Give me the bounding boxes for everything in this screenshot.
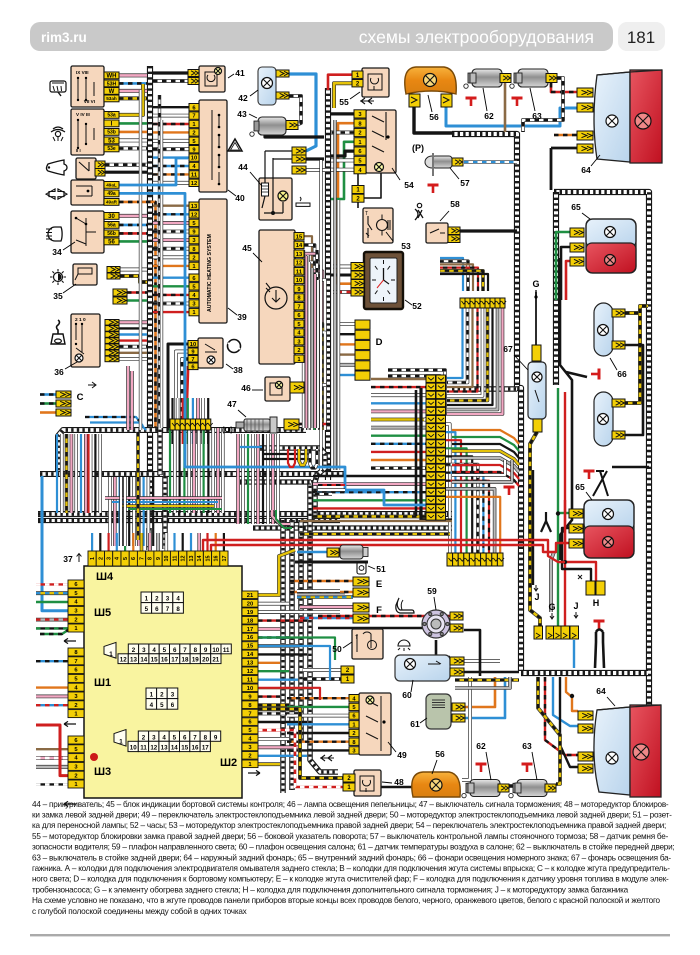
wires 56 top (414, 107, 452, 133)
svg-text:2 1 0: 2 1 0 (75, 317, 86, 323)
svg-text:13: 13 (189, 556, 195, 562)
window switch 54 (366, 110, 396, 173)
svg-text:WH: WH (107, 74, 117, 80)
svg-text:1: 1 (109, 651, 113, 658)
svg-text:7: 7 (192, 114, 195, 120)
svg-text:3: 3 (142, 647, 146, 654)
wires 46 47 (304, 383, 326, 387)
blue curve wires turn signals to 40 (119, 158, 188, 185)
wires D connector (340, 322, 355, 326)
wire 48 to 56b (381, 786, 413, 788)
svg-text:V IV III: V IV III (76, 112, 90, 117)
svg-text:E: E (376, 579, 382, 590)
svg-text:19: 19 (247, 610, 254, 616)
svg-text:12: 12 (247, 669, 253, 675)
svg-text:12: 12 (181, 556, 187, 562)
tags 66b (612, 399, 625, 407)
wire trunk right upper horizontal (452, 134, 521, 671)
wires light block to trunk (119, 214, 147, 218)
svg-text:18: 18 (247, 618, 254, 624)
svg-text:46: 46 (241, 383, 251, 393)
switch block 34 section washer (71, 109, 104, 155)
relay 41 (199, 66, 225, 92)
svg-text:8: 8 (204, 734, 208, 741)
svg-text:5: 5 (173, 734, 177, 741)
svg-text:6: 6 (183, 734, 187, 741)
svg-text:13: 13 (191, 204, 198, 210)
splice pair x114 (113, 289, 127, 296)
connector tags 30 56a 56b 56 (104, 213, 119, 220)
wires to 48 pins (258, 709, 343, 778)
svg-text:3: 3 (166, 596, 170, 603)
svg-text:15: 15 (151, 657, 158, 664)
svg-text:с голубой полоской соединены м: с голубой полоской соединены между собой… (32, 907, 247, 916)
svg-text:53: 53 (401, 241, 411, 251)
brake switch 47 (236, 417, 277, 433)
svg-text:21: 21 (212, 657, 219, 664)
motor 43 (250, 117, 286, 136)
svg-text:49: 49 (397, 750, 407, 760)
wires splice x114 (127, 291, 147, 294)
svg-text:48: 48 (394, 777, 404, 787)
wire trunk horizontal Hc2 (38, 518, 340, 523)
connector tags 65 top (570, 228, 584, 237)
wires central column left side (371, 378, 426, 380)
connector tags 65 bottom (569, 509, 583, 518)
wires 35 to trunk (120, 268, 147, 272)
svg-text:62: 62 (476, 741, 486, 751)
svg-text:5: 5 (160, 702, 164, 709)
door switch 63 bottom (522, 764, 533, 772)
black U wire (595, 632, 596, 668)
bottom rule (30, 934, 670, 936)
svg-text:6: 6 (155, 606, 159, 613)
svg-text:65: 65 (575, 482, 585, 492)
black verticals right mid (560, 258, 572, 560)
lamp 42 (258, 67, 276, 105)
header bar (30, 22, 613, 51)
wires central column left lower (313, 475, 426, 477)
svg-text:2: 2 (192, 131, 195, 137)
svg-text:13: 13 (161, 745, 168, 752)
rheostat 35 (73, 264, 97, 285)
horn switch 34 section (76, 158, 96, 179)
wire trunk horizontal y389 right (452, 386, 517, 392)
connector strip Sh4 (88, 551, 96, 566)
svg-text:16: 16 (214, 556, 220, 562)
svg-text:13: 13 (247, 661, 254, 667)
red T near H (594, 621, 605, 629)
wires 55 pins (328, 75, 352, 90)
switch unit 40 (199, 100, 227, 192)
svg-text:Ш2: Ш2 (220, 757, 237, 769)
wire trunk T1 vertical left (147, 66, 153, 519)
wire curtain c2 (108, 477, 112, 546)
inner connector X3 (6 pin) (146, 688, 157, 699)
wires to F tags (300, 605, 353, 609)
red T mid right (504, 487, 515, 495)
svg-text:тробензонасоса; G – к элементу: тробензонасоса; G – к элементу обогрева … (32, 885, 629, 894)
icon windscreen wiper (50, 81, 66, 96)
svg-text:3: 3 (152, 734, 156, 741)
wire trunk horizontal Hc (38, 511, 452, 517)
svg-text:1: 1 (119, 738, 123, 745)
svg-text:ка для переносной лампы; 52 –: ка для переносной лампы; 52 – часы; 53 –… (32, 821, 666, 830)
svg-text:2: 2 (160, 692, 164, 699)
svg-text:63 – выключатель в стойке задн: 63 – выключатель в стойке задней двери; … (32, 853, 671, 862)
wires left block 34b to trunk (119, 84, 143, 115)
svg-text:6: 6 (173, 647, 177, 654)
wire trunk jog near T2 bottom (260, 448, 325, 519)
svg-text:5: 5 (123, 557, 129, 560)
svg-text:52: 52 (412, 301, 422, 311)
side turn lamp 56 top (405, 67, 457, 94)
svg-text:17: 17 (247, 627, 253, 633)
svg-text:1: 1 (145, 596, 149, 603)
dense fan right of 45 (302, 250, 305, 428)
svg-text:55: 55 (339, 97, 349, 107)
svg-text:7: 7 (140, 557, 146, 560)
svg-text:56: 56 (108, 240, 115, 246)
svg-text:14: 14 (171, 745, 178, 752)
wires trunk to 39 pins (153, 204, 189, 206)
svg-text:56: 56 (435, 749, 445, 759)
svg-text:36: 36 (54, 367, 64, 377)
connector tags WH 53H W 53ah (104, 72, 119, 79)
horn connector tag (95, 161, 105, 169)
connector tags 49aL 49a 49aR (104, 182, 119, 189)
svg-text:20: 20 (247, 601, 253, 607)
svg-text:38: 38 (233, 365, 243, 375)
wires 65 top tags (556, 232, 570, 300)
svg-text:44: 44 (238, 162, 248, 172)
svg-text:2: 2 (155, 596, 159, 603)
wires trunk to relay 41 (153, 71, 188, 74)
svg-text:2: 2 (132, 647, 136, 654)
svg-text:7: 7 (166, 606, 170, 613)
trunk lamp 67 (528, 362, 546, 419)
right nested L rows (452, 460, 505, 475)
icon instrument dimmer (50, 269, 66, 285)
wires left edge to Sh3 (36, 748, 68, 750)
svg-text:65: 65 (571, 202, 581, 212)
svg-text:37: 37 (63, 554, 73, 564)
svg-text:49aL: 49aL (106, 183, 117, 188)
wire trunk horizontal Hb (40, 471, 345, 477)
tail lamp 65 bottom (584, 500, 634, 558)
connector tags 64 bottom (578, 711, 593, 720)
instrument panel block 37 (84, 566, 242, 798)
svg-text:18: 18 (182, 657, 189, 664)
wire trunk horizontal Hd (253, 525, 452, 530)
svg-text:19: 19 (192, 657, 199, 664)
arrow marks (64, 638, 76, 643)
icon turn signals (46, 189, 67, 199)
wire trunk horizontal Ha (58, 430, 306, 476)
connector tags 58 (448, 227, 460, 235)
svg-text:12: 12 (150, 745, 157, 752)
wire curtain c3 (169, 428, 171, 513)
wires turn block to trunk (119, 202, 156, 428)
yellow-black vertical x138 (136, 432, 140, 540)
svg-text:2: 2 (352, 731, 355, 737)
door switch 62 top (464, 69, 502, 88)
connector tag 46 (290, 382, 304, 393)
wires connector C (40, 393, 56, 396)
svg-text:63: 63 (522, 741, 532, 751)
wires 59 black (436, 640, 450, 657)
svg-text:4: 4 (152, 647, 156, 654)
svg-text:11: 11 (223, 647, 230, 654)
icon lamp rays 1 (398, 640, 410, 651)
indicator block 45 (259, 230, 295, 364)
svg-text:62: 62 (484, 111, 494, 121)
svg-text:16: 16 (161, 657, 168, 664)
window switch 53 (363, 208, 393, 243)
icon horn (47, 160, 68, 175)
svg-text:10: 10 (190, 342, 196, 348)
svg-text:12: 12 (296, 261, 302, 267)
wires 36 to trunk (119, 320, 147, 324)
connector strip Sh5 (68, 580, 84, 588)
svg-text:13: 13 (130, 657, 137, 664)
svg-text:D: D (376, 337, 383, 348)
svg-text:30: 30 (108, 214, 115, 220)
svg-text:53H: 53H (107, 81, 117, 87)
connector tags 50 (341, 666, 354, 674)
svg-text:7: 7 (183, 647, 187, 654)
svg-text:60: 60 (402, 690, 412, 700)
svg-text:8: 8 (148, 557, 154, 560)
svg-text:7: 7 (248, 711, 251, 717)
svg-text:34: 34 (52, 247, 62, 257)
svg-text:10: 10 (212, 647, 219, 654)
svg-text:5: 5 (163, 647, 167, 654)
connector C tags (56, 391, 71, 398)
page number 181 (618, 22, 665, 51)
svg-text:2: 2 (297, 348, 300, 354)
svg-text:11: 11 (296, 269, 303, 275)
wires S2 splice up (440, 258, 463, 291)
connector tags G J row (534, 626, 543, 639)
black thick L near D (421, 388, 452, 520)
svg-text:66: 66 (617, 369, 627, 379)
wire curtain c1 extras (65, 434, 69, 513)
svg-text:20: 20 (202, 657, 209, 664)
svg-text:G: G (532, 279, 539, 289)
svg-text:43: 43 (237, 109, 247, 119)
svg-text:H: H (593, 598, 600, 608)
svg-text:53ah: 53ah (106, 96, 117, 101)
connector tag 47 (284, 419, 299, 430)
svg-text:схемы электрооборудования: схемы электрооборудования (359, 27, 594, 47)
svg-text:4: 4 (176, 596, 180, 603)
svg-text:7: 7 (297, 304, 300, 310)
svg-text:61: 61 (410, 719, 420, 729)
wires 53 pins up (357, 173, 359, 186)
svg-text:(Р): (Р) (412, 143, 424, 153)
wire 57 to trunk (464, 160, 517, 164)
red pair horizontals (203, 540, 565, 562)
svg-text:63: 63 (532, 111, 542, 121)
svg-text:49aR: 49aR (106, 200, 118, 205)
svg-text:15: 15 (181, 745, 188, 752)
svg-text:41: 41 (235, 68, 245, 78)
connector tag pair 35 (107, 267, 120, 273)
red T near 65b (584, 471, 595, 479)
svg-text:53a: 53a (107, 113, 116, 119)
tail lamp 64 bottom (594, 705, 661, 797)
svg-text:21: 21 (247, 593, 254, 599)
wires central column right side to S3 (446, 424, 450, 553)
svg-text:8: 8 (176, 606, 180, 613)
band extra horizontals (240, 446, 262, 448)
svg-text:2: 2 (98, 557, 104, 560)
blue L wires into trunk (85, 417, 143, 426)
door switch 62 bottom (476, 764, 487, 772)
wires horn to trunk (105, 163, 147, 167)
connector H (586, 581, 595, 595)
svg-text:7: 7 (74, 659, 77, 665)
svg-text:T: T (365, 211, 368, 217)
connector tags 44 (292, 147, 306, 155)
svg-text:J: J (534, 592, 539, 602)
wire curtain c1 (56, 434, 58, 513)
inner connector X4 (17 pin) (114, 730, 126, 746)
central splice column (426, 375, 436, 382)
svg-text:64: 64 (596, 686, 606, 696)
svg-text:2: 2 (248, 754, 251, 760)
svg-text:2: 2 (142, 734, 146, 741)
companion wires along trunk T1 (139, 90, 142, 430)
svg-text:2: 2 (74, 703, 77, 709)
connector strip Sh1 (68, 648, 84, 656)
connector tag pair 41 (188, 70, 199, 77)
svg-text:ки замка левой задней двери; 4: ки замка левой задней двери; 49 – перекл… (32, 811, 672, 820)
black V junction (541, 521, 551, 532)
svg-text:J: J (573, 601, 578, 611)
svg-text:56: 56 (429, 112, 439, 122)
svg-text:W: W (109, 89, 115, 95)
svg-text:11: 11 (191, 173, 198, 179)
svg-text:10: 10 (164, 556, 170, 562)
switch 38 (198, 338, 223, 368)
svg-text:9: 9 (204, 647, 208, 654)
white verticals x120-126 (119, 477, 122, 546)
svg-text:45: 45 (242, 243, 252, 253)
svg-text:58: 58 (450, 199, 460, 209)
connector strip Sh2 (242, 591, 258, 599)
svg-text:11: 11 (140, 745, 147, 752)
blue thick left (42, 476, 68, 611)
svg-text:2: 2 (74, 773, 77, 779)
svg-text:12: 12 (120, 657, 127, 664)
svg-text:1: 1 (150, 692, 154, 699)
side turn lamp 56 bottom (412, 772, 461, 797)
wire trunk bottom right box (521, 670, 648, 676)
icon seat (396, 598, 414, 613)
svg-text:4: 4 (115, 557, 121, 560)
connector E tags (353, 577, 369, 586)
svg-text:Ш4: Ш4 (96, 571, 114, 583)
license plate lamp 66a (594, 303, 613, 356)
tail lamp 64 top (594, 70, 662, 163)
svg-text:67: 67 (503, 344, 513, 354)
svg-text:59: 59 (427, 586, 437, 596)
svg-text:На схеме условно не показано,: На схеме условно не показано, что в жгут… (32, 896, 661, 905)
socket 51 icon (357, 562, 366, 574)
wire trunk row y482 (240, 479, 311, 484)
svg-text:9: 9 (156, 557, 162, 560)
svg-text:17: 17 (171, 657, 178, 664)
wires to 59 (318, 615, 450, 618)
svg-text:17: 17 (222, 556, 228, 562)
icon headlight washer (51, 127, 65, 141)
window switch 50 (352, 629, 383, 659)
wires S2 splice down to column (446, 303, 463, 378)
wires left block 34a to trunk (119, 73, 147, 77)
extend G region verticals (557, 388, 559, 470)
icon ring (228, 340, 241, 353)
svg-text:12: 12 (191, 181, 197, 187)
ashtray illumination 46 (265, 377, 290, 401)
svg-text:39: 39 (237, 312, 247, 322)
ashtray lamp 44 (259, 178, 292, 220)
svg-text:9: 9 (214, 734, 218, 741)
connector strip Sh3 (68, 736, 84, 744)
wires to 49 pins (287, 697, 349, 699)
wires 67 trunk lamp (535, 292, 537, 345)
splice strip S3 (447, 553, 453, 566)
wires to E tags (290, 580, 353, 583)
temp sensor 61 (426, 694, 451, 729)
wires 42 43 44 (289, 74, 316, 151)
svg-text:3: 3 (171, 692, 175, 699)
svg-text:G: G (548, 602, 555, 612)
svg-text:53: 53 (108, 139, 115, 145)
wires 45 pins fan right (304, 236, 312, 430)
caption text block (32, 800, 674, 916)
icon headlight (46, 227, 62, 241)
connector tags 42 (276, 70, 289, 77)
wire 58 to trunk (460, 229, 517, 232)
plafond 60 (395, 655, 450, 681)
wires to clock tags (333, 265, 351, 269)
wires Sh4 feeds (91, 533, 93, 551)
white pair near A connector (297, 589, 340, 592)
connector tags 48 (343, 774, 355, 782)
connector tag 57 (452, 158, 463, 166)
svg-text:IX VIII: IX VIII (76, 70, 89, 75)
svg-text:Ш1: Ш1 (94, 677, 111, 689)
band mid horizontals below Hb (105, 496, 222, 499)
connector tags 53 pins (352, 186, 364, 194)
svg-text:6: 6 (131, 557, 137, 560)
seat belt sensor 58 (415, 203, 423, 220)
svg-text:12: 12 (191, 212, 197, 218)
wire trunk bottom-left bundles (280, 520, 286, 793)
white-black pair near D (388, 376, 440, 420)
svg-text:(О): (О) (222, 425, 233, 434)
svg-text:50: 50 (332, 644, 342, 654)
svg-text:3: 3 (107, 557, 113, 560)
svg-text:16: 16 (247, 635, 254, 641)
svg-text:T: T (355, 635, 358, 641)
svg-text:54: 54 (404, 180, 414, 190)
svg-text:55 – моторедуктор блокировки з: 55 – моторедуктор блокировки замка право… (32, 832, 669, 841)
svg-text:11: 11 (172, 556, 178, 562)
switch block 34 section turn (71, 180, 104, 205)
